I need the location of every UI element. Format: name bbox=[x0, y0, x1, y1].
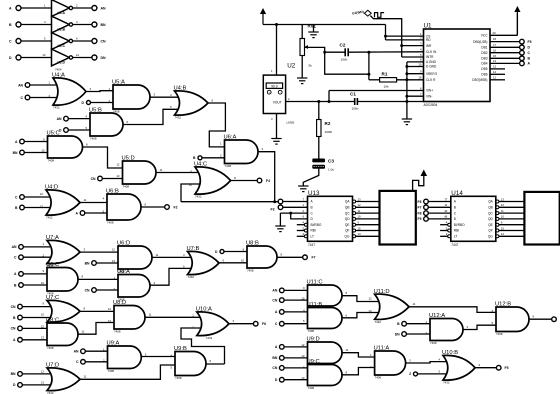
svg-text:7408: 7408 bbox=[496, 332, 503, 336]
wire BN to U7:D pin12 bbox=[22, 373, 50, 375]
svg-text:U3:A: U3:A bbox=[58, 11, 66, 15]
terminal B bbox=[14, 283, 23, 288]
svg-text:U5:C: U5:C bbox=[47, 131, 60, 137]
terminal CN bbox=[85, 288, 97, 293]
svg-text:U4:C: U4:C bbox=[194, 162, 207, 168]
svg-text:CN: CN bbox=[85, 288, 90, 292]
svg-text:U8:A: U8:A bbox=[117, 269, 130, 275]
ground RV1 bbox=[297, 78, 307, 84]
AND gate U9:D bbox=[301, 337, 348, 369]
wire U11:D out to U12:B pin4 bbox=[409, 307, 496, 313]
wire input terminal to gate bbox=[284, 367, 308, 369]
svg-text:13: 13 bbox=[501, 197, 505, 201]
wire U9:B out bbox=[206, 363, 225, 365]
junction bbox=[275, 23, 278, 26]
wire node to U13 pin D bbox=[291, 213, 308, 219]
svg-text:5k: 5k bbox=[309, 64, 313, 68]
svg-text:C3: C3 bbox=[328, 159, 334, 164]
wire WR to INTR bbox=[402, 46, 424, 57]
wire ground to U13 pin C bbox=[280, 213, 307, 226]
svg-text:DB1: DB1 bbox=[481, 46, 487, 50]
AND gate U5:B bbox=[85, 108, 128, 141]
terminal AN bbox=[18, 83, 30, 88]
terminal B bbox=[397, 321, 406, 326]
wire rail to CS/RD bbox=[385, 25, 387, 40]
terminal D bbox=[215, 250, 224, 254]
svg-text:7447: 7447 bbox=[308, 243, 315, 247]
AND gate U11:C bbox=[301, 280, 347, 311]
wire R1 right to CLK R bbox=[397, 79, 424, 81]
svg-text:U2: U2 bbox=[287, 62, 296, 69]
AND gate U8:C bbox=[41, 318, 85, 351]
wire B to U12:A pin1 bbox=[406, 323, 430, 325]
OR gate U11:D bbox=[368, 289, 415, 324]
svg-text:11: 11 bbox=[413, 302, 416, 306]
svg-text:U12:A: U12:A bbox=[429, 313, 445, 319]
svg-text:BN: BN bbox=[272, 356, 277, 360]
terminal F2 bbox=[165, 205, 178, 210]
svg-text:U3:C: U3:C bbox=[58, 44, 66, 48]
signal rail left of C1 bbox=[286, 101, 355, 103]
svg-text:U11:C: U11:C bbox=[307, 280, 323, 286]
terminal C bbox=[14, 255, 23, 260]
terminal D bbox=[59, 128, 68, 133]
wire U6:D out to U7:B pin4 bbox=[152, 256, 191, 258]
svg-text:13: 13 bbox=[108, 319, 112, 323]
wire input terminal to gate bbox=[284, 357, 308, 359]
output terminal bbox=[552, 317, 557, 322]
svg-text:CN: CN bbox=[11, 305, 16, 309]
svg-text:AN: AN bbox=[12, 245, 17, 249]
svg-text:U5:D: U5:D bbox=[122, 156, 135, 162]
svg-text:U7:D: U7:D bbox=[46, 363, 59, 369]
wire R2 top bbox=[318, 102, 320, 120]
wire BN to U6:D pin13 bbox=[96, 262, 118, 264]
svg-text:11: 11 bbox=[160, 168, 163, 172]
wire U9:C out to U11:A pin2 bbox=[342, 368, 375, 375]
junction bbox=[323, 51, 326, 54]
potentiometer RV1 bbox=[300, 24, 317, 68]
svg-text:7408: 7408 bbox=[90, 137, 97, 141]
capacitor C3 polarized bbox=[312, 159, 334, 172]
svg-text:11: 11 bbox=[156, 253, 159, 257]
svg-text:U3:B: U3:B bbox=[58, 28, 66, 32]
svg-text:U1: U1 bbox=[424, 23, 433, 30]
terminal F6 bbox=[418, 199, 429, 204]
wire U11:A out to U10:B pin4 bbox=[406, 362, 447, 363]
svg-text:QE: QE bbox=[345, 223, 350, 227]
svg-text:7408: 7408 bbox=[108, 369, 115, 373]
wire A to U5:C pin9 bbox=[24, 141, 50, 143]
wire A to U8:C pin10 bbox=[22, 339, 47, 341]
stub U14 control pin bbox=[440, 235, 448, 237]
svg-text:7408: 7408 bbox=[308, 386, 315, 390]
power rail wire bbox=[263, 24, 386, 26]
wire AN to U7:A pin1 bbox=[23, 246, 50, 248]
svg-text:11: 11 bbox=[84, 375, 87, 379]
svg-text:7408: 7408 bbox=[225, 164, 232, 168]
gnd bus vertical bbox=[406, 62, 408, 119]
wire D to U8:B pin9 bbox=[224, 251, 247, 253]
svg-text:7404: 7404 bbox=[55, 68, 62, 72]
terminal B bbox=[15, 205, 24, 210]
junction bbox=[317, 100, 320, 103]
wire B to U4:D pin13 bbox=[24, 207, 50, 209]
terminal CN bbox=[11, 304, 23, 309]
terminal D bbox=[13, 383, 22, 388]
terminal B bbox=[193, 156, 202, 160]
svg-text:U4:B: U4:B bbox=[174, 86, 187, 92]
7404 label bbox=[55, 68, 62, 72]
svg-text:F6: F6 bbox=[262, 322, 266, 326]
OR gate U7:C bbox=[41, 295, 86, 327]
svg-text:LT: LT bbox=[311, 235, 315, 239]
ground under rail bbox=[308, 32, 318, 38]
stub DB6 bbox=[490, 70, 505, 74]
svg-text:11: 11 bbox=[358, 209, 361, 213]
svg-text:QG: QG bbox=[488, 235, 493, 239]
terminal C bbox=[76, 360, 85, 365]
junction bbox=[273, 200, 276, 203]
svg-text:13: 13 bbox=[40, 205, 44, 209]
svg-text:10: 10 bbox=[358, 215, 362, 219]
svg-text:7432: 7432 bbox=[443, 381, 450, 385]
junction bbox=[328, 100, 331, 103]
wire DN to U12:A pin2 bbox=[406, 333, 430, 335]
display power step arrow wire bbox=[413, 176, 424, 192]
junction bbox=[400, 44, 403, 47]
wire AN to U5:B pin4 bbox=[68, 118, 90, 120]
wire input terminal to gate bbox=[284, 311, 308, 313]
OR gate U7:B bbox=[183, 246, 225, 279]
svg-text:QF: QF bbox=[488, 229, 492, 233]
wire U14 output to display bbox=[499, 197, 525, 201]
svg-text:7432: 7432 bbox=[188, 275, 195, 279]
wire D to U5:B pin5 bbox=[68, 129, 90, 131]
svg-text:12: 12 bbox=[41, 369, 45, 373]
inverter U3:C (C to CN) bbox=[9, 33, 106, 50]
svg-text:12: 12 bbox=[108, 307, 112, 311]
inverter U3:B (B to BN) bbox=[9, 16, 106, 33]
terminal D bbox=[520, 45, 531, 50]
wire D GND bbox=[407, 66, 424, 68]
AND gate U9:C bbox=[301, 359, 347, 390]
svg-text:CLK IN: CLK IN bbox=[426, 50, 437, 54]
wire A GND bbox=[407, 61, 424, 63]
clock wire to WR bbox=[370, 16, 401, 46]
svg-text:7408: 7408 bbox=[175, 376, 182, 380]
OR gate U4:D bbox=[40, 185, 87, 220]
wire C2 node down to R1 bbox=[369, 52, 380, 80]
wire C3 to ground bbox=[303, 169, 319, 186]
svg-text:VIN-: VIN- bbox=[426, 94, 432, 98]
svg-text:11: 11 bbox=[501, 209, 504, 213]
7-segment display 2 bbox=[524, 192, 559, 245]
svg-text:WR: WR bbox=[426, 44, 432, 48]
svg-text:F5: F5 bbox=[505, 366, 509, 370]
svg-text:VREF/2: VREF/2 bbox=[426, 72, 437, 76]
svg-text:100n: 100n bbox=[341, 58, 348, 62]
svg-text:7432: 7432 bbox=[195, 195, 202, 199]
terminal A bbox=[15, 139, 24, 144]
7-segment display 1 bbox=[380, 191, 416, 245]
wire U9:A out to U9:B pin4 bbox=[141, 356, 175, 358]
svg-text:U10:B: U10:B bbox=[442, 350, 458, 356]
svg-text:7408: 7408 bbox=[114, 330, 121, 334]
svg-text:RV1: RV1 bbox=[308, 24, 317, 29]
wire AN to U9:A pin1 bbox=[85, 350, 107, 352]
wire U14 output to display bbox=[499, 203, 525, 207]
svg-text:B: B bbox=[454, 206, 456, 210]
AND gate U11:A bbox=[370, 346, 411, 380]
stub U13 control pin bbox=[297, 224, 305, 226]
svg-text:VCC: VCC bbox=[481, 34, 488, 38]
svg-text:U7:C: U7:C bbox=[46, 295, 59, 301]
wire RV1 wiper down and right bbox=[305, 47, 369, 74]
svg-text:7408: 7408 bbox=[375, 376, 382, 380]
wire U9:B out loop to U10:A pin2 bbox=[181, 328, 225, 364]
wire U7:D out to U9:B pin5 bbox=[80, 365, 175, 379]
svg-text:U10:A: U10:A bbox=[196, 307, 212, 313]
svg-text:AN: AN bbox=[57, 117, 62, 121]
svg-text:7408: 7408 bbox=[123, 185, 130, 189]
svg-text:RBI: RBI bbox=[454, 229, 459, 233]
terminal F7 bbox=[303, 255, 316, 260]
svg-text:12: 12 bbox=[493, 70, 497, 74]
svg-text:11: 11 bbox=[493, 75, 496, 79]
terminal CN bbox=[11, 326, 23, 331]
AND gate U6:C bbox=[41, 262, 84, 296]
svg-text:10: 10 bbox=[301, 297, 305, 301]
wire U4:B out to U6:A pin1 bbox=[208, 103, 225, 147]
OR gate U10:B bbox=[438, 350, 480, 385]
svg-text:U6:C: U6:C bbox=[46, 262, 59, 268]
OR gate U10:A bbox=[192, 307, 234, 341]
terminal A bbox=[14, 272, 23, 277]
svg-text:7432: 7432 bbox=[175, 116, 182, 120]
wire U8:A out to U7:B pin5 bbox=[150, 268, 191, 285]
svg-text:BI/RBO: BI/RBO bbox=[454, 223, 465, 227]
wire U2 pin1 to rail bbox=[271, 25, 277, 75]
svg-text:U9:D: U9:D bbox=[307, 337, 320, 343]
svg-text:13: 13 bbox=[116, 174, 120, 178]
svg-text:RBI: RBI bbox=[311, 229, 316, 233]
svg-text:100n: 100n bbox=[352, 107, 359, 111]
svg-text:U11:B: U11:B bbox=[307, 302, 323, 308]
svg-text:7432: 7432 bbox=[53, 106, 60, 110]
wire U7:C out to U8:D pin12 bbox=[80, 310, 114, 312]
svg-text:BN: BN bbox=[85, 261, 90, 265]
wire CN to U8:C pin9 bbox=[22, 327, 47, 329]
svg-text:10: 10 bbox=[41, 312, 45, 316]
AND gate U12:B bbox=[491, 302, 534, 337]
wire U6:A out down to feedback node bbox=[258, 152, 275, 202]
svg-text:F4: F4 bbox=[266, 179, 270, 183]
svg-text:QF: QF bbox=[345, 229, 349, 233]
wire U10:B out to F5 bbox=[475, 367, 496, 369]
svg-text:7447: 7447 bbox=[451, 243, 458, 247]
wire C2 right to U1 CLK IN bbox=[349, 51, 424, 53]
terminal AN bbox=[12, 245, 24, 250]
OR gate U7:D bbox=[41, 363, 87, 394]
svg-text:17: 17 bbox=[493, 43, 497, 47]
AND gate U9:A bbox=[103, 341, 147, 374]
junction bbox=[367, 51, 370, 54]
wire U12:A out to U12:B pin5 bbox=[463, 325, 496, 329]
wire terminal F6 to U14 bbox=[428, 197, 451, 201]
svg-text:C2: C2 bbox=[340, 43, 346, 48]
svg-text:12: 12 bbox=[501, 203, 505, 207]
stub U14 control pin bbox=[440, 230, 448, 232]
AND gate U8:D bbox=[108, 300, 152, 334]
svg-text:14: 14 bbox=[493, 59, 497, 63]
svg-text:F5: F5 bbox=[528, 40, 532, 44]
svg-text:F2: F2 bbox=[174, 205, 178, 209]
terminal A bbox=[275, 345, 284, 350]
wire U5:C out to U5:D pin12 bbox=[83, 147, 123, 168]
wire U5:B out to U4:B pin5 bbox=[123, 109, 179, 124]
svg-text:QB: QB bbox=[488, 206, 493, 210]
svg-text:CLK R: CLK R bbox=[426, 78, 436, 82]
svg-text:7408: 7408 bbox=[47, 346, 54, 350]
OR gate U7:A bbox=[42, 235, 85, 268]
svg-text:LM35: LM35 bbox=[287, 120, 295, 124]
wire RV1 top bbox=[301, 25, 303, 39]
junction bbox=[384, 35, 387, 38]
junction bbox=[405, 78, 408, 81]
terminal AN bbox=[272, 288, 284, 293]
svg-text:15: 15 bbox=[358, 226, 362, 230]
wire U5:D out to U4:C pin9 bbox=[156, 172, 200, 174]
terminal CN bbox=[272, 298, 284, 303]
signal rail right of C1 bbox=[357, 101, 423, 103]
wire terminal F8 to U14 bbox=[428, 209, 451, 213]
IC U13 7447 bbox=[302, 190, 355, 247]
wire DB0 to terminal F5 bbox=[490, 37, 520, 41]
wire U14 output to display bbox=[499, 215, 525, 219]
wire U14 output to display bbox=[499, 209, 525, 213]
svg-text:13: 13 bbox=[112, 259, 116, 263]
svg-text:CN: CN bbox=[91, 177, 96, 181]
terminal C bbox=[275, 321, 284, 326]
svg-text:7408: 7408 bbox=[48, 159, 55, 163]
svg-text:F7: F7 bbox=[418, 206, 422, 210]
wire U6:B out to F2 bbox=[141, 206, 165, 208]
svg-text:12: 12 bbox=[76, 53, 80, 57]
svg-text:13: 13 bbox=[493, 65, 497, 69]
junction bbox=[405, 100, 408, 103]
svg-text:7432: 7432 bbox=[46, 216, 53, 220]
wire U13 output to display bbox=[355, 215, 379, 219]
junction bbox=[367, 73, 370, 76]
svg-text:QG: QG bbox=[345, 235, 350, 239]
svg-text:12: 12 bbox=[301, 343, 305, 347]
svg-text:2: 2 bbox=[409, 372, 411, 376]
terminal CN bbox=[272, 366, 284, 371]
feedback wire horizontal bbox=[181, 201, 278, 203]
sensor U2 LM35 bbox=[263, 62, 295, 124]
AND gate U9:B bbox=[170, 346, 211, 380]
svg-text:13: 13 bbox=[41, 336, 45, 340]
svg-text:10: 10 bbox=[241, 258, 245, 262]
svg-text:U3:D: U3:D bbox=[58, 61, 66, 65]
wire U13 output to display bbox=[355, 209, 379, 213]
svg-text:QC: QC bbox=[488, 211, 493, 215]
svg-text:11: 11 bbox=[84, 198, 87, 202]
wire CN to U8:A pin2 bbox=[96, 289, 118, 291]
wire U13 output to display bbox=[355, 226, 379, 230]
terminal A bbox=[76, 211, 85, 216]
svg-text:14: 14 bbox=[358, 232, 362, 236]
OR gate U4:A bbox=[48, 73, 91, 110]
svg-text:7432: 7432 bbox=[375, 320, 382, 324]
wire A to U6:B pin5 bbox=[85, 212, 107, 214]
display power arrow bbox=[421, 170, 428, 177]
wire U4:D out to U6:B pin4 bbox=[80, 202, 107, 204]
svg-text:U6:A: U6:A bbox=[224, 135, 237, 141]
terminal AN bbox=[74, 349, 86, 354]
svg-text:12: 12 bbox=[358, 203, 362, 207]
svg-text:12: 12 bbox=[368, 296, 372, 300]
svg-text:R2: R2 bbox=[325, 121, 331, 126]
svg-text:15: 15 bbox=[501, 226, 505, 230]
svg-text:INTR: INTR bbox=[426, 55, 434, 59]
svg-text:DN: DN bbox=[395, 332, 400, 336]
svg-text:10: 10 bbox=[189, 183, 193, 187]
wire terminal F7 to U14 bbox=[428, 203, 451, 207]
svg-text:DB3: DB3 bbox=[481, 57, 487, 61]
wire terminal F9 to U14 bbox=[428, 215, 451, 219]
svg-text:BI/RBO: BI/RBO bbox=[311, 223, 322, 227]
terminal F4 bbox=[257, 178, 270, 183]
wire RD bbox=[386, 39, 424, 41]
svg-text:C1: C1 bbox=[350, 92, 356, 97]
svg-text:VIN+: VIN+ bbox=[426, 89, 433, 93]
svg-text:12: 12 bbox=[112, 248, 116, 252]
AND gate U6:D bbox=[112, 241, 159, 274]
svg-text:13: 13 bbox=[42, 53, 46, 57]
svg-text:A GND: A GND bbox=[426, 60, 437, 64]
svg-text:U5:A: U5:A bbox=[112, 80, 125, 86]
svg-text:U4:A: U4:A bbox=[52, 73, 65, 79]
node terminal bbox=[278, 199, 283, 204]
wire U4:C out to F4 bbox=[231, 180, 258, 182]
resistor R2 bbox=[317, 120, 333, 137]
svg-text:20: 20 bbox=[493, 31, 497, 35]
IC U1 ADC0804 bbox=[418, 23, 496, 107]
wire input terminal to gate bbox=[284, 289, 308, 291]
ground C3 bbox=[298, 186, 308, 192]
svg-text:F3: F3 bbox=[271, 208, 275, 212]
svg-text:U6:B: U6:B bbox=[106, 189, 119, 195]
wire U2 pin3 to ground bbox=[271, 114, 277, 139]
terminal C bbox=[21, 95, 30, 100]
svg-text:U4:D: U4:D bbox=[45, 185, 58, 191]
terminal C bbox=[15, 195, 24, 200]
wire U8:B out to F7 bbox=[277, 256, 303, 258]
wire VREF/2 bbox=[407, 73, 424, 75]
svg-text:18: 18 bbox=[493, 37, 497, 41]
terminal B bbox=[13, 315, 22, 320]
OR gate U4:C bbox=[189, 162, 236, 199]
wire U13 output to display bbox=[355, 203, 379, 207]
svg-text:B: B bbox=[311, 206, 313, 210]
wire B to U6:A pin2 bbox=[202, 157, 224, 159]
svg-text:U8:C: U8:C bbox=[46, 318, 59, 324]
svg-text:QE: QE bbox=[488, 223, 493, 227]
terminal F3 bbox=[271, 205, 283, 212]
svg-text:U9:A: U9:A bbox=[107, 341, 120, 347]
